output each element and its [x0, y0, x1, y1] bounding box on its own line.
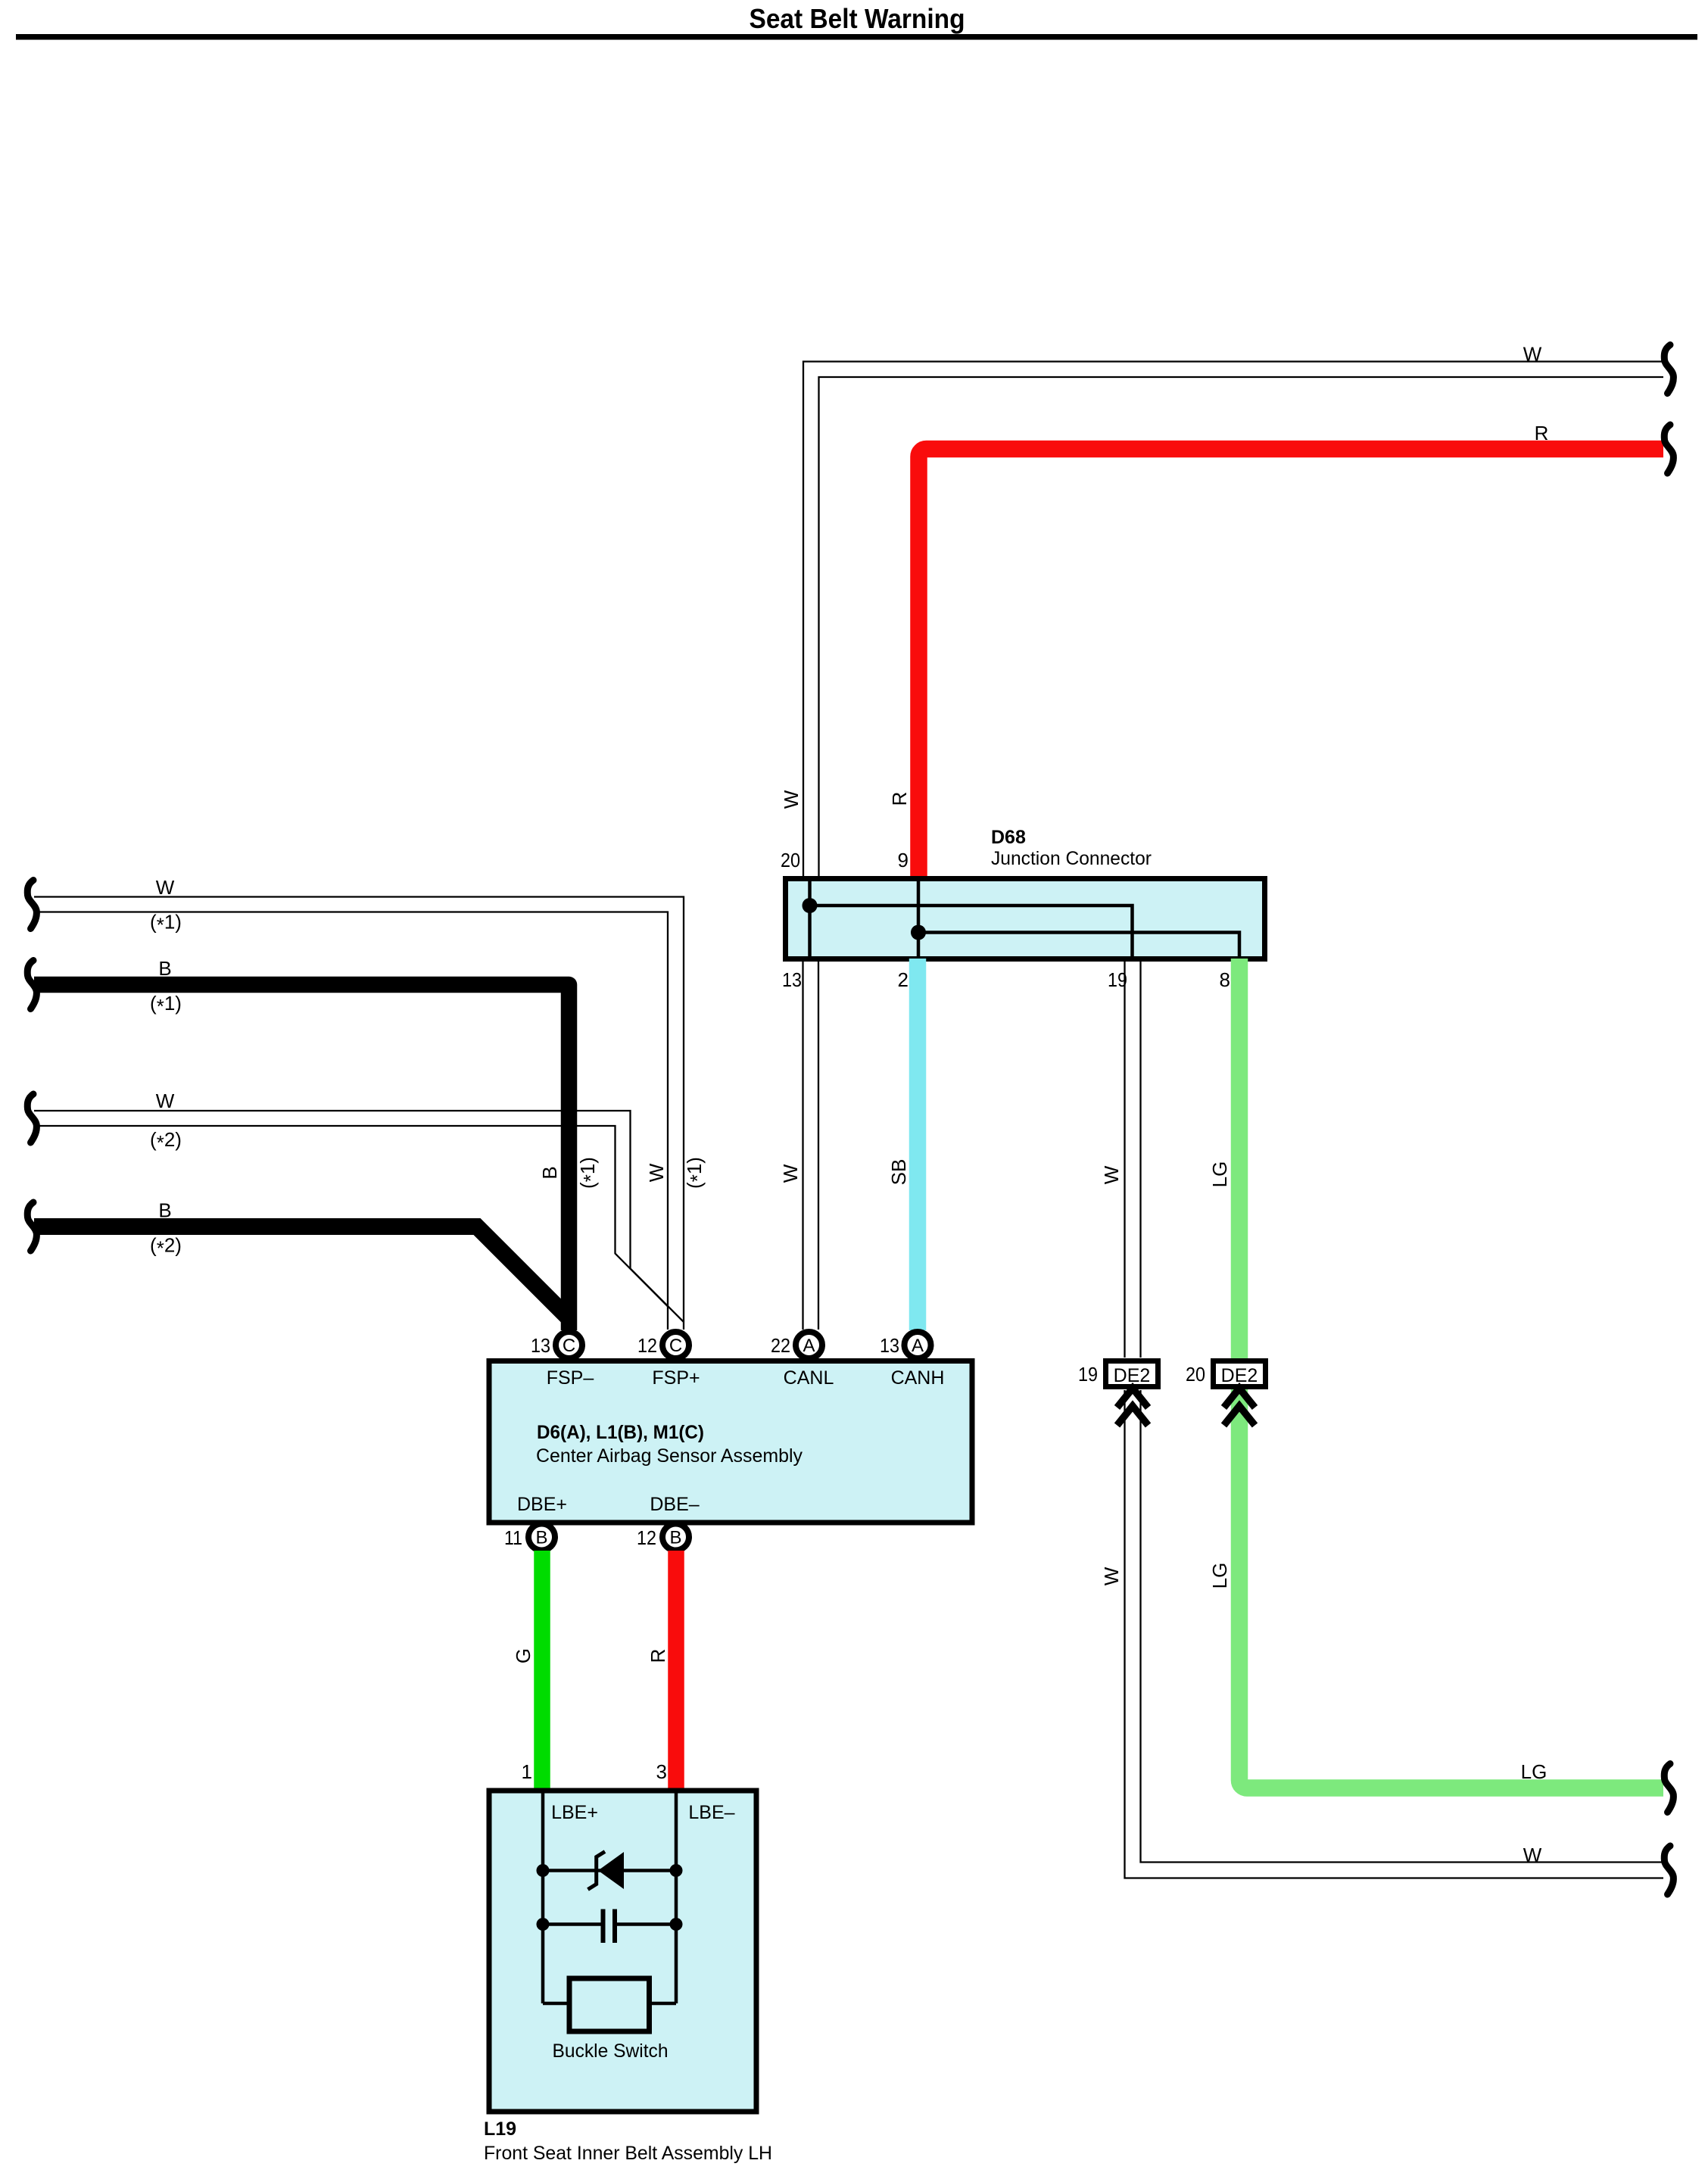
wire W (*1) to FSP+ [34, 897, 684, 1330]
svg-text:19: 19 [1078, 1363, 1098, 1386]
svg-text:(*1): (*1) [150, 911, 182, 937]
svg-text:W: W [780, 790, 803, 809]
svg-text:W: W [645, 1163, 668, 1182]
D68 pin number 20 [781, 849, 800, 871]
label W (*1) [150, 876, 182, 937]
port label DBE- [650, 1494, 699, 1515]
D68 internal wire branch to pin 8 [918, 933, 1239, 957]
wire R to junction connector pin 9 [919, 449, 1664, 878]
svg-text:DBE–: DBE– [650, 1494, 699, 1515]
label W (top right) [1523, 343, 1542, 366]
D68 internal wire branch to pin 19 [810, 906, 1133, 956]
svg-text:W: W [1100, 1567, 1123, 1585]
svg-text:13: 13 [880, 1334, 899, 1357]
title: Seat Belt Warning [750, 3, 965, 34]
node dot LBE- / capacitor [670, 1918, 683, 1931]
squiggle continuation W (*1) [27, 881, 36, 929]
svg-text:(*2): (*2) [150, 1234, 182, 1260]
svg-text:Center Airbag Sensor Assembly: Center Airbag Sensor Assembly [536, 1445, 803, 1467]
svg-text:DBE+: DBE+ [517, 1494, 567, 1515]
squiggle continuation B (*1) [27, 961, 36, 1009]
DE2 pin 19 shield chevrons [1117, 1389, 1149, 1426]
svg-text:12: 12 [637, 1526, 656, 1549]
svg-text:(*2): (*2) [150, 1128, 182, 1154]
port label FSP+ [652, 1367, 700, 1389]
label R (top right) [1535, 422, 1549, 444]
svg-text:1: 1 [522, 1760, 532, 1783]
DE2 pin number 19 [1078, 1363, 1098, 1386]
wire LG from D68 pin 8 through DE2 pin 20 [1239, 959, 1663, 1788]
L19 pin number 1 [522, 1760, 532, 1783]
rotated label W (below DE2) [1100, 1567, 1123, 1585]
assembly name label [536, 1422, 803, 1467]
port label CANH [891, 1367, 945, 1389]
D68 internal wire pin 20 to pin 13 [808, 881, 812, 956]
svg-text:(*1): (*1) [683, 1157, 709, 1189]
svg-text:LG: LG [1208, 1161, 1231, 1188]
wire G from DBE+ pin 11 to L19 pin 1 [534, 1551, 550, 1789]
rotated label SB [887, 1159, 910, 1186]
node dot LBE- / diode [670, 1864, 683, 1877]
L19 internal wire LBE- rail [675, 1793, 678, 2003]
svg-text:A: A [803, 1336, 815, 1356]
svg-text:13: 13 [782, 968, 802, 991]
rotated label LG (below DE2) [1208, 1563, 1231, 1589]
svg-text:D6(A), L1(B), M1(C): D6(A), L1(B), M1(C) [537, 1422, 704, 1443]
label B (*1) [150, 957, 182, 1018]
wire B (*2) to FSP- [34, 1227, 569, 1319]
D68 internal junction dot (pin 20 branch) [803, 898, 818, 913]
wire W to junction connector pin 20 [803, 362, 1663, 879]
svg-text:11: 11 [504, 1526, 522, 1549]
svg-text:W: W [1100, 1165, 1123, 1184]
port label LBE+ [551, 1802, 598, 1823]
svg-text:A: A [912, 1336, 924, 1356]
pin number 12 (DBE-) [637, 1526, 656, 1549]
title rule [16, 34, 1697, 40]
svg-text:CANH: CANH [891, 1367, 945, 1389]
DE2 pin 20 shield chevrons [1224, 1389, 1255, 1426]
svg-text:FSP–: FSP– [547, 1367, 594, 1389]
pin 11 B (DBE+) [528, 1524, 555, 1551]
zener diode D1 [588, 1852, 625, 1890]
zener diode branch wire [543, 1869, 676, 1872]
capacitor C1 plates [603, 1909, 616, 1944]
svg-text:LG: LG [1208, 1563, 1231, 1589]
svg-text:LG: LG [1521, 1760, 1547, 1783]
svg-text:W: W [1523, 1844, 1542, 1866]
svg-text:W: W [1523, 343, 1542, 366]
junction connector D68 box [786, 879, 1265, 959]
buckle switch label [553, 2040, 669, 2062]
capacitor branch wire [543, 1922, 676, 1926]
svg-text:R: R [888, 792, 911, 806]
pin number 22 (CANL) [771, 1334, 790, 1357]
svg-text:B: B [158, 957, 171, 980]
squiggle continuation R top right [1664, 425, 1673, 473]
buckle switch SW1 [569, 1978, 650, 2031]
svg-text:(*1): (*1) [576, 1157, 602, 1189]
svg-text:20: 20 [1186, 1363, 1205, 1386]
squiggle continuation W bottom right [1664, 1846, 1673, 1894]
L19 pin number 3 [656, 1760, 667, 1783]
svg-text:R: R [1535, 422, 1549, 444]
L19 internal wire LBE+ rail [541, 1793, 545, 2003]
D68 name label [991, 827, 1152, 869]
pin number 11 (DBE+) [504, 1526, 522, 1549]
svg-text:LBE+: LBE+ [551, 1802, 598, 1823]
svg-text:Junction Connector: Junction Connector [991, 848, 1152, 869]
D68 pin number 19 [1108, 968, 1127, 991]
svg-text:FSP+: FSP+ [652, 1367, 700, 1389]
pin 22 A (CANL) [796, 1332, 822, 1358]
label W (bottom right) [1523, 1844, 1542, 1866]
D68 pin number 8 [1220, 968, 1230, 991]
wire SB from D68 pin 2 to CANH [909, 959, 927, 1330]
wire W (*2) to FSP+ [34, 1111, 684, 1322]
svg-text:B: B [158, 1199, 171, 1222]
wire W from D68 pin 13 to CANL [803, 959, 819, 1330]
pin number 13 (CANH) [880, 1334, 899, 1357]
svg-text:LBE–: LBE– [688, 1802, 734, 1823]
svg-text:B: B [535, 1528, 547, 1548]
svg-text:Seat Belt Warning: Seat Belt Warning [750, 3, 965, 34]
rotated label LG (D68 to DE2) [1208, 1161, 1231, 1188]
svg-text:Front Seat Inner Belt Assembly: Front Seat Inner Belt Assembly LH [484, 2143, 772, 2164]
svg-text:13: 13 [531, 1334, 550, 1357]
svg-text:D68: D68 [991, 827, 1026, 848]
label LG (bottom right) [1521, 1760, 1547, 1783]
rotated label W (D68 to CANL) [779, 1164, 802, 1183]
svg-text:2: 2 [898, 968, 909, 991]
svg-text:(*1): (*1) [150, 992, 182, 1018]
squiggle continuation W top right [1664, 345, 1673, 394]
svg-text:Buckle Switch: Buckle Switch [553, 2040, 669, 2062]
svg-text:8: 8 [1220, 968, 1230, 991]
svg-text:DE2: DE2 [1114, 1365, 1151, 1386]
D68 pin number 2 [898, 968, 909, 991]
svg-text:12: 12 [637, 1334, 657, 1357]
pin 12 C (FSP+) [662, 1332, 689, 1358]
buckle switch wire left [543, 2002, 567, 2006]
pin 13 A (CANH) [905, 1332, 931, 1358]
svg-text:SB: SB [887, 1159, 910, 1186]
buckle switch wire right [652, 2002, 676, 2006]
rotated wire labels B (*1) vertical run [538, 1157, 602, 1189]
DE2 pin number 20 [1186, 1363, 1205, 1386]
D68 pin number 9 [898, 849, 909, 871]
svg-text:C: C [563, 1336, 575, 1356]
port label LBE- [688, 1802, 734, 1823]
svg-text:W: W [156, 1090, 175, 1112]
node dot LBE+ / diode [537, 1864, 550, 1877]
squiggle continuation W (*2) [27, 1094, 36, 1143]
pin 13 C (FSP-) [556, 1332, 582, 1358]
svg-text:3: 3 [656, 1760, 667, 1783]
pin number 13 (FSP-) [531, 1334, 550, 1357]
rotated label R above D68 [888, 792, 911, 806]
svg-text:W: W [156, 876, 175, 899]
node dot LBE+ / capacitor [537, 1918, 550, 1931]
svg-text:L19: L19 [484, 2118, 516, 2140]
rotated label R [647, 1649, 669, 1663]
rotated label G [512, 1648, 535, 1663]
L19 front seat inner belt assembly box [489, 1791, 756, 2112]
svg-text:B: B [669, 1528, 681, 1548]
label B (*2) [150, 1199, 182, 1260]
wire W from D68 pin 19 to DE2 pin 19 and onward [1125, 959, 1664, 1878]
port label DBE+ [517, 1494, 567, 1515]
squiggle continuation LG bottom right [1664, 1764, 1673, 1813]
D68 pin number 13 [782, 968, 802, 991]
label W (*2) [150, 1090, 182, 1154]
D68 internal junction dot (pin 9 branch) [911, 925, 926, 940]
squiggle continuation B (*2) [27, 1202, 36, 1251]
svg-text:22: 22 [771, 1334, 790, 1357]
svg-text:B: B [538, 1166, 561, 1179]
pin 12 B (DBE-) [662, 1524, 689, 1551]
port label FSP- [547, 1367, 594, 1389]
connector DE2 pin 20 [1214, 1361, 1266, 1387]
L19 name label [484, 2118, 772, 2164]
wire R from DBE- pin 12 to L19 pin 3 [668, 1551, 684, 1789]
svg-text:G: G [512, 1648, 535, 1663]
svg-text:R: R [647, 1649, 669, 1663]
port label CANL [784, 1367, 834, 1389]
svg-text:9: 9 [898, 849, 909, 871]
svg-text:W: W [779, 1164, 802, 1183]
pin number 12 (FSP+) [637, 1334, 657, 1357]
connector DE2 pin 19 [1106, 1361, 1158, 1387]
center airbag sensor assembly box D6(A) L1(B) M1(C) [489, 1361, 972, 1523]
rotated label W above D68 [780, 790, 803, 809]
svg-text:CANL: CANL [784, 1367, 834, 1389]
rotated label W (D68 to DE2) [1100, 1165, 1123, 1184]
rotated wire labels W (*1) vertical run [645, 1157, 709, 1189]
svg-text:C: C [669, 1336, 682, 1356]
wire B (*1) to FSP- [34, 985, 569, 1331]
D68 internal wire pin 9 to pin 2 [917, 881, 921, 956]
svg-text:20: 20 [781, 849, 800, 871]
